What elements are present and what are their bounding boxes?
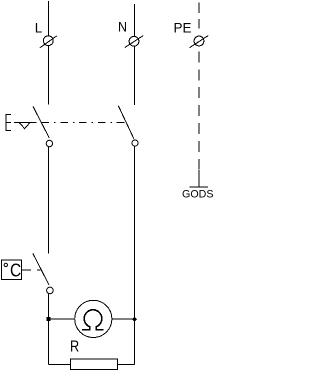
wire L to switch bbox=[48, 46, 50, 105]
wire bottom left bbox=[49, 364, 71, 366]
wire to meter bbox=[49, 318, 75, 320]
thermostat switch contact bbox=[47, 287, 54, 294]
wire N top bbox=[134, 4, 136, 37]
thermostat degree circle bbox=[4, 263, 7, 266]
actuator link solid bbox=[14, 122, 37, 124]
terminal PE slash bbox=[190, 36, 209, 48]
terminal N circle bbox=[129, 36, 139, 46]
terminal PE circle bbox=[194, 36, 204, 46]
actuator E bracket bbox=[6, 114, 11, 131]
terminal N slash bbox=[125, 36, 143, 48]
thermostat link dash bbox=[37, 269, 41, 271]
terminal L circle bbox=[43, 36, 53, 46]
svg-text:C: C bbox=[10, 259, 21, 280]
wire L middle bbox=[48, 147, 50, 254]
linkage dash-dot bbox=[42, 122, 127, 124]
terminal L slash bbox=[40, 36, 57, 48]
junction right bbox=[132, 317, 137, 322]
switch S1 pole2 blade bbox=[118, 106, 133, 139]
wire PE solid tail bbox=[198, 170, 200, 187]
thermostat box bbox=[1, 260, 21, 280]
svg-text:N: N bbox=[118, 19, 127, 34]
junction left bbox=[47, 317, 51, 321]
thermostat link solid bbox=[21, 269, 31, 271]
svg-text:L: L bbox=[35, 20, 43, 35]
actuator triangle bbox=[19, 123, 30, 129]
meter circle bbox=[75, 300, 112, 337]
wire L lower bbox=[48, 294, 50, 365]
switch S1 pole1 contact bbox=[46, 140, 52, 146]
switch S1 pole2 contact bbox=[132, 140, 138, 146]
wire meter to N bbox=[112, 318, 135, 320]
wire L top bbox=[48, 1, 50, 36]
wire bottom right bbox=[118, 364, 135, 366]
wire PE dashed top bbox=[198, 2, 200, 28]
switch S1 pole1 blade bbox=[33, 106, 49, 138]
wire N to switch bbox=[134, 46, 136, 105]
thermostat switch blade bbox=[33, 253, 49, 285]
svg-text:PE: PE bbox=[174, 20, 192, 36]
resistor body bbox=[70, 359, 117, 370]
wire PE dashed down bbox=[198, 51, 200, 169]
svg-text:GODS: GODS bbox=[182, 189, 214, 201]
chassis GODS bar bbox=[190, 186, 209, 188]
svg-text:R: R bbox=[70, 338, 79, 355]
meter ohm label bbox=[82, 310, 103, 330]
wire N middle bbox=[134, 146, 136, 365]
